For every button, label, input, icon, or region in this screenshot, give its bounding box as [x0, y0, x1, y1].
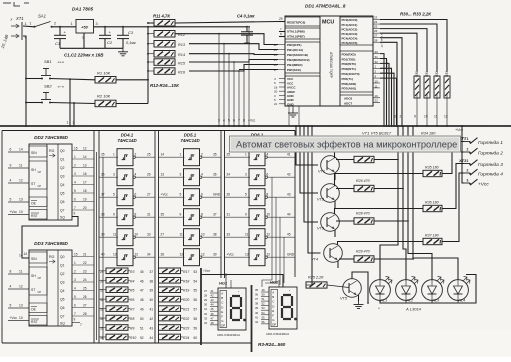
inverter DD5.1 element 4 [184, 209, 200, 226]
inverter DD6.1 element 4 [249, 209, 265, 226]
wires dropping to lower section [218, 34, 220, 126]
inverter DD4.1 element 4 [117, 209, 133, 226]
inverter DD4.1 element 3 [117, 189, 133, 206]
+5V rail wire [94, 26, 248, 28]
resistor R15 [154, 59, 175, 66]
MCU internal dividers [319, 16, 321, 106]
MCU pins 7 8 leads [279, 31, 285, 33]
wire R1 to +5V column [116, 79, 148, 81]
ground symbol input filter [122, 48, 124, 52]
inverter DD6.1 element 1 [249, 149, 265, 166]
inverter DD4.1 element 2 [117, 169, 133, 186]
scan artifact marks [3, 2, 29, 6]
wire R13 to PB1 [189, 44, 278, 50]
svg-text:R3-R24...560: R3-R24...560 [258, 342, 286, 347]
MCU XTAL pin box [285, 28, 320, 39]
resistor R16 [154, 68, 175, 75]
resistor R12 [154, 31, 175, 38]
wire R25 to VT5 base [327, 285, 349, 288]
wire PC3 to R30 [380, 33, 417, 71]
wire R11 to RESET [175, 22, 278, 24]
svg-text:60: 60 [194, 336, 198, 340]
ground wire of input filter [60, 47, 123, 49]
wire R2 to +5V column [116, 103, 148, 105]
resistor R22 [159, 315, 181, 321]
resistor 470 ohm row 3 [354, 218, 374, 224]
resistor R18 [159, 277, 181, 283]
resistor 470 ohm row 4 [354, 256, 374, 262]
svg-text:44: 44 [150, 336, 154, 340]
wire R16 to PB4 [189, 65, 278, 72]
wire XT1 pin2 down to bus [23, 36, 26, 126]
wire base feed VT1 [296, 126, 318, 165]
wire SB1 to R1 and node 1 [50, 79, 95, 80]
resistor R8 [106, 315, 128, 321]
wire PC2 to R31 [380, 29, 427, 72]
wire DD3 SQ stub [72, 322, 80, 324]
svg-text:36: 36 [100, 336, 104, 340]
bus junction dots [25, 125, 27, 127]
wires PD to lower right section [380, 54, 384, 126]
wire R14 to PB2 [189, 53, 278, 56]
wire node1 down to bus [69, 79, 71, 126]
resistor R17 [159, 268, 181, 274]
MCU PD pin box [340, 51, 373, 92]
resistor R10 [106, 334, 128, 340]
wire bundle column left of HG2 [251, 285, 253, 352]
connector XT1 [21, 22, 23, 40]
capacitor C3 [122, 26, 124, 28]
svg-text:52: 52 [140, 336, 144, 340]
MCU ADC pin box [340, 95, 373, 106]
wire SA1 to DA1 input [52, 26, 77, 28]
transistor VТ3 [321, 213, 340, 232]
MCU PC pin box [340, 17, 373, 45]
svg-text:СRО-О3611SRUА: СRО-О3611SRUА [266, 332, 289, 336]
emitter wires VT1-VT4 to 470 ohm resistors [336, 159, 354, 161]
resistor R3 [106, 268, 128, 274]
wire main supply bus [0, 125, 511, 127]
resistor R9 [106, 325, 128, 331]
wire DA1 pin2 to ground [83, 33, 85, 48]
resistor R20 [159, 296, 181, 302]
MCU PB pin box [285, 42, 320, 73]
wire PC5 down [380, 42, 397, 126]
LED НL2 [396, 280, 417, 301]
inverter DD6.1 element 3 [249, 189, 265, 206]
wire base feed VT4 [308, 126, 321, 253]
caption overlay box [230, 136, 461, 152]
ground symbol VT5 emitter [358, 295, 360, 301]
resistor 470 ohm row 2 [354, 185, 374, 191]
inverter DD5.1 element 3 [184, 189, 200, 206]
inverter DD6.1 element 2 [249, 169, 265, 186]
svg-text:СRО-О3611SRUА: СRО-О3611SRUА [217, 333, 240, 337]
wire node2 down to bus [73, 103, 75, 126]
resistor R24 [159, 334, 181, 340]
inverter DD5.1 element 1 [184, 149, 200, 166]
resistor R23 [159, 325, 181, 331]
resistor R7 [106, 306, 128, 312]
capacitor C1 [59, 26, 61, 28]
ground symbol under MCU [292, 106, 294, 110]
transistor VТ5 [343, 279, 362, 298]
LED НL4 [448, 280, 469, 301]
inverter DD4.1 element 5 [117, 229, 133, 246]
resistor 470 ohm row 1 [354, 156, 374, 162]
resistor R6 [106, 296, 128, 302]
logic section frame [2, 130, 295, 132]
wire PC4 down [380, 38, 402, 126]
wire +Vcc to XT3 pin3 [462, 126, 464, 183]
resistor R14 [154, 51, 175, 58]
resistor R4 [106, 277, 128, 283]
collector wires VT1-VT4 to 180 ohm resistors [335, 144, 424, 158]
wires 180 resistors to connectors [442, 142, 464, 145]
wire +5V vertical feed for pullups [147, 26, 149, 28]
transistor VТ1 [321, 156, 340, 175]
MCU power pin box [285, 76, 320, 106]
resistor R13 [154, 41, 175, 48]
svg-text:R24: R24 [183, 336, 189, 340]
wire base feed VT2 [300, 126, 318, 193]
wire base feed VT5 via R25 [311, 126, 313, 285]
inverter DD4.1 element 1 [117, 149, 133, 166]
resistor R19 [159, 287, 181, 293]
resistor R21 [159, 306, 181, 312]
LED НL1 [370, 280, 391, 301]
inverter DD6.1 element 6 [249, 249, 265, 266]
wires DD6 outputs down to HG2 [262, 177, 272, 287]
wires 470 resistors to LED columns [380, 126, 398, 280]
MCU RESET pin box [285, 17, 320, 26]
wire SCK row to PB5 [239, 69, 278, 71]
wire DD2 SQ to DD3 SIN [22, 217, 78, 259]
svg-text:R10: R10 [130, 336, 136, 340]
wire R12 to PB0 [175, 34, 278, 45]
wire PC1 to R32 [380, 24, 437, 72]
inverter DD5.1 element 5 [184, 229, 200, 246]
MCU pin 29 lead [278, 21, 285, 23]
LED НL3 [422, 280, 443, 301]
inverter DD6.1 element 5 [249, 229, 265, 246]
wire SB1 left to supply column [26, 78, 42, 80]
transistor VТ4 [324, 244, 343, 263]
wire bundle column left of HG1 [200, 268, 202, 345]
inverter DD5.1 element 2 [184, 169, 200, 186]
resistor R5 [106, 287, 128, 293]
resistor R34 180 (behind caption) [423, 141, 442, 147]
wire LED cathode bus [380, 275, 476, 304]
wire SB2 to R2 and node 2 [50, 103, 95, 104]
inverter DD5.1 element 6 [184, 249, 200, 266]
wires DD3 outputs down column [96, 152, 98, 340]
wire PC0 to R33 [380, 20, 447, 72]
wire SB2 left to supply column [26, 102, 42, 104]
inverter DD4.1 element 6 [117, 249, 133, 266]
wire R15 to PB3 [189, 60, 278, 63]
wire XT1 pin1 to SA1 [23, 25, 34, 28]
wire cathode bus to VT5 collector [352, 272, 368, 303]
transistor VТ2 [321, 184, 340, 203]
wire base feed VT3 [304, 126, 318, 222]
svg-text:Автомат световых эффектов на м: Автомат световых эффектов на микроконтро… [236, 140, 457, 150]
capacitor C2 [104, 26, 106, 28]
